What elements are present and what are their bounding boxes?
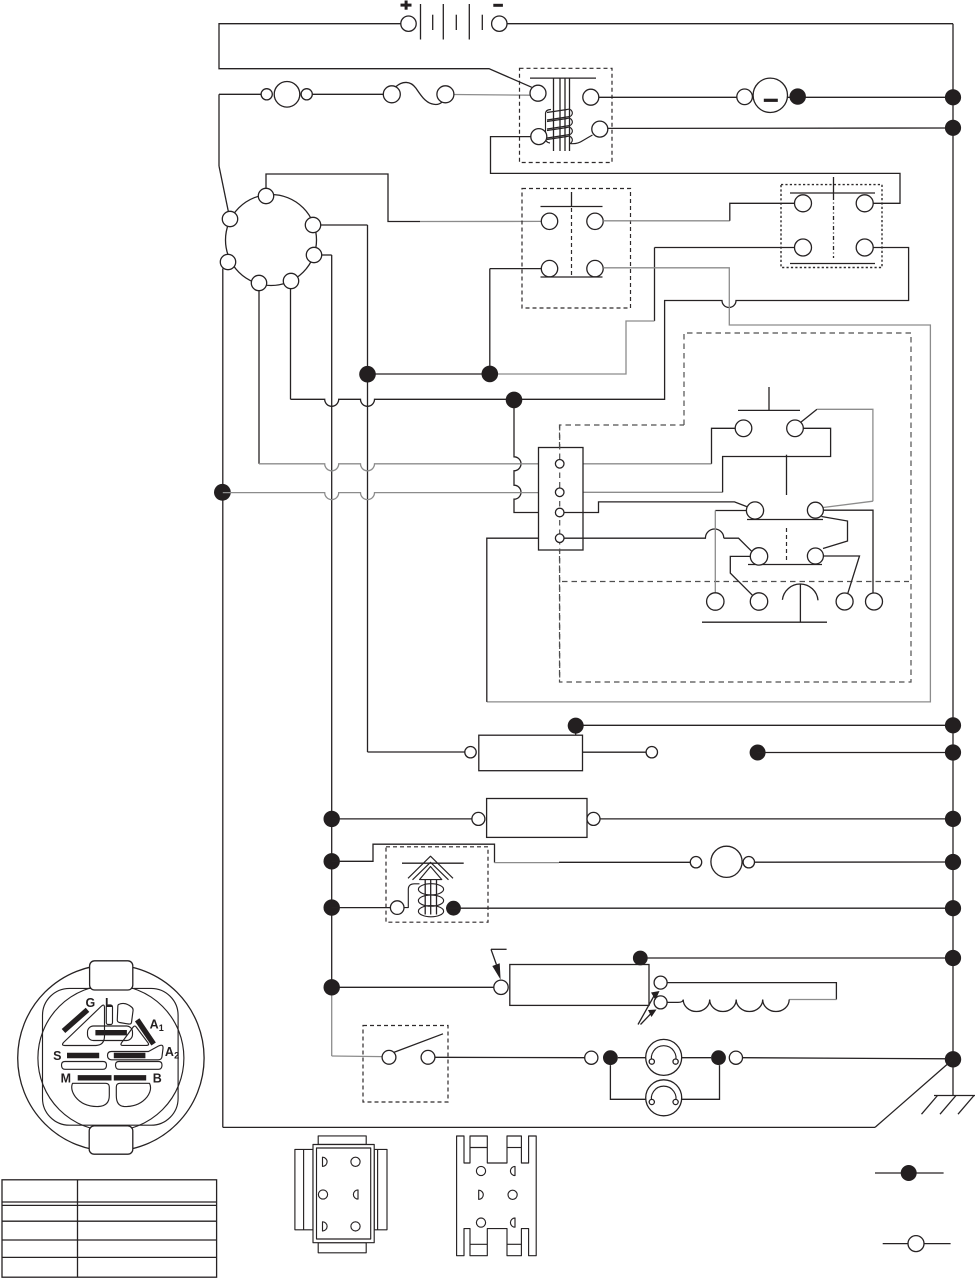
svg-text:L: L bbox=[105, 996, 113, 1010]
svg-text:1: 1 bbox=[159, 1023, 164, 1033]
svg-text:A: A bbox=[150, 1018, 159, 1032]
svg-text:B: B bbox=[153, 1071, 162, 1085]
svg-text:M: M bbox=[61, 1071, 71, 1085]
svg-text:2: 2 bbox=[174, 1051, 179, 1061]
svg-text:G: G bbox=[86, 996, 96, 1010]
svg-text:A: A bbox=[165, 1045, 174, 1059]
svg-text:S: S bbox=[53, 1049, 61, 1063]
